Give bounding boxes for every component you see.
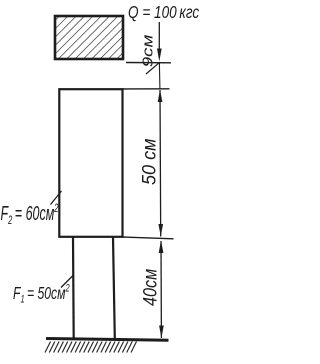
dimension line upper segment with down arrow (9cm) [158, 22, 160, 52]
svg-text:Q = 100 кгс: Q = 100 кгс [128, 3, 199, 22]
dimension line 40cm [160, 241, 162, 338]
up arrow at top of 50cm dimension [158, 90, 163, 103]
svg-text:F1 = 50см2: F1 = 50см2 [13, 281, 70, 305]
down arrow at bottom of 40cm dimension [159, 326, 164, 339]
top edge extension line to dimension [122, 88, 170, 90]
slash tick at 9cm dimension [146, 62, 160, 74]
ground line [46, 339, 169, 341]
down arrow at bottom of 50cm dimension [158, 224, 163, 236]
bottom edge extension line to dimension [122, 237, 174, 239]
ground hatching [45, 342, 137, 353]
upper column section F2 (rectangle) [59, 89, 122, 237]
svg-text:9см: 9см [139, 34, 156, 67]
leader line for F1 label [61, 275, 74, 288]
svg-text:40см: 40см [139, 269, 161, 306]
lower column section F1 left edge [72, 237, 75, 339]
dimension line 50cm [159, 90, 162, 237]
svg-text:50 см: 50 см [138, 138, 160, 185]
leader line for F2 label [51, 191, 62, 205]
dimension line 9cm middle segment [158, 63, 161, 89]
extension line at bottom of load block (9cm gap top) [126, 62, 171, 64]
svg-text:F2 = 60см2: F2 = 60см2 [1, 202, 59, 228]
up arrow at top of 40cm dimension [159, 240, 164, 253]
lower column section F1 right edge [113, 237, 115, 339]
load block Q (hatched weight) [55, 16, 123, 59]
